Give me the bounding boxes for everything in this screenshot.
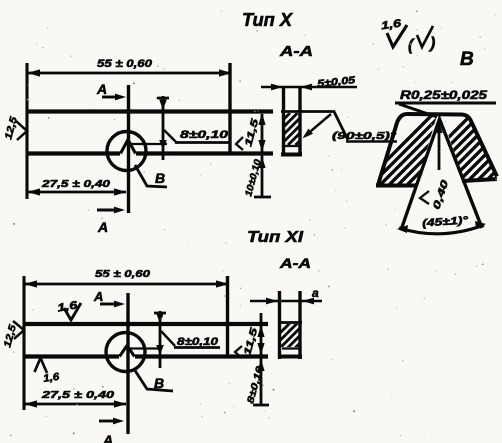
dimension R0,25±0,025 with leader [395, 90, 496, 117]
dimension 27,5±0,40 [27, 179, 127, 196]
label A-A bottom section [279, 255, 311, 271]
notch root extension line XI [130, 347, 160, 349]
section A-A X right edge [298, 87, 301, 156]
section A-A XI: dimension with label a [250, 286, 322, 304]
section A-A X: dimension 5±0,05 [261, 75, 357, 90]
section A-A X hatching [258, 113, 328, 145]
heading Tip X [242, 10, 293, 30]
section arrow A top [96, 81, 126, 100]
svg-text:а: а [312, 286, 319, 300]
detail circle B XI [106, 333, 145, 372]
detail B outline [376, 114, 497, 186]
svg-text:A: A [97, 219, 108, 235]
section A-A X inner line [282, 145, 301, 147]
svg-text:27,5 ± 0,40: 27,5 ± 0,40 [41, 179, 111, 190]
bar Type X right end [228, 63, 231, 155]
svg-text:): ) [428, 35, 435, 52]
detail B notch V sides [401, 119, 482, 230]
detail B apex arrow [435, 121, 442, 170]
section A-A X left edge [282, 87, 285, 156]
notch root extension line [130, 143, 167, 145]
bar Type X top edge [27, 109, 273, 113]
section A-A XI left edge [278, 291, 281, 359]
dimension 11,5 right side [236, 113, 271, 198]
label B detail title [460, 49, 474, 70]
svg-text:A: A [96, 81, 107, 97]
section A-A XI inner line [282, 347, 301, 349]
section A-A XI bottom line [278, 355, 302, 359]
svg-text:A-A: A-A [279, 43, 313, 60]
roughness 12,5 left [3, 115, 27, 141]
svg-text:A-A: A-A [279, 255, 311, 271]
detail circle B [107, 132, 146, 171]
bar Type XI right end [226, 276, 229, 358]
dimension 27,5±0,40 XI [24, 390, 127, 408]
svg-text:Тип X: Тип X [242, 10, 293, 30]
notch V Type X [121, 140, 136, 154]
detail B hatching right [396, 110, 502, 190]
section A-A XI right edge [298, 291, 301, 359]
left extension line [25, 63, 28, 199]
svg-text:Тип XI: Тип XI [247, 229, 304, 246]
svg-text:27,5 ± 0,40: 27,5 ± 0,40 [41, 390, 115, 401]
dimension 55±0,60 XI [24, 268, 229, 288]
dimension 55±0,60 [27, 58, 232, 77]
angle (45±1)° with arc [397, 214, 486, 233]
svg-text:A: A [93, 289, 103, 304]
rotated dimension 0,40 in notch [420, 178, 451, 211]
svg-text:A: A [102, 432, 113, 443]
section A-A XI hatching [263, 320, 323, 350]
heading Tip XI [247, 229, 304, 246]
roughness 12,5 left XI [2, 321, 24, 349]
leader to label B [135, 165, 167, 187]
section A-A XI step line [278, 321, 302, 324]
roughness 1,6 top surface XI [56, 299, 81, 320]
label A-A top section [279, 43, 313, 60]
dimension 8±0,10 vertical XI [154, 311, 220, 368]
section arrow A bottom XI [99, 418, 124, 443]
svg-text:55 ± 0,60: 55 ± 0,60 [95, 268, 150, 280]
left extension line XI [22, 276, 25, 410]
svg-text:8±0,10: 8±0,10 [180, 129, 229, 141]
svg-text:55 ± 0,60: 55 ± 0,60 [97, 58, 153, 70]
svg-text:R0,25±0,025: R0,25±0,025 [400, 90, 488, 102]
notch V Type XI [120, 346, 135, 357]
section A-A X bottom line [281, 153, 302, 157]
roughness note 1,6 with check marks [380, 17, 435, 54]
dimension 8±0,10 vertical [157, 96, 229, 160]
leader to label B XI [134, 369, 173, 391]
section cut line A-A XI [126, 293, 129, 434]
section arrow A top XI [93, 289, 125, 307]
svg-text:(90±0,5)°: (90±0,5)° [332, 131, 398, 142]
svg-text:В: В [460, 49, 474, 70]
svg-text:В: В [154, 375, 164, 391]
dimension 11,5 right side XI [235, 313, 269, 405]
section arrow A bottom [97, 207, 125, 235]
detail B hatching left [357, 110, 500, 190]
bar Type X bottom edge with notch gap [27, 151, 273, 155]
section cut line A-A [127, 85, 130, 213]
angle (90±0,5)° with leader arrow [303, 114, 398, 142]
svg-text:1,6: 1,6 [43, 371, 61, 385]
bar Type XI top edge [24, 322, 268, 326]
svg-text:8±0,10: 8±0,10 [177, 336, 219, 348]
section A-A X step line and leader [281, 112, 348, 141]
svg-text:В: В [155, 170, 165, 186]
roughness 1,6 bottom surface XI [35, 358, 61, 385]
bar Type XI bottom edge with notch gap [24, 354, 268, 358]
